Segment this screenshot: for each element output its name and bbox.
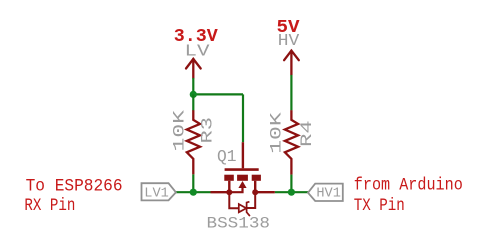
svg-text:To ESP8266: To ESP8266: [26, 176, 123, 196]
body diode anode wire: [229, 192, 239, 208]
transistor Q1 MOSFET: [211, 142, 275, 216]
wire junction to gate horizontal: [193, 93, 243, 95]
svg-text:HV1: HV1: [316, 186, 341, 202]
svg-text:10K: 10K: [170, 109, 188, 151]
source lead: [228, 181, 230, 192]
gate pin: [242, 142, 244, 168]
junction node LV rail: [190, 91, 197, 98]
channel bar drain: [252, 175, 261, 181]
resistor R3: [187, 110, 200, 174]
wire junction to R3: [192, 94, 194, 110]
terminal LV1: [142, 183, 176, 200]
svg-text:from Arduino: from Arduino: [354, 176, 463, 196]
wire LV1 tag to MOSFET source: [176, 191, 211, 193]
wire LV arrow to junction: [192, 78, 194, 94]
svg-text:LV: LV: [185, 41, 210, 60]
svg-text:Q1: Q1: [217, 148, 237, 167]
junction node LV1: [190, 189, 197, 196]
svg-text:RX Pin: RX Pin: [24, 196, 75, 216]
drain lead: [254, 181, 256, 192]
channel bar source: [224, 175, 234, 181]
terminal HV1: [308, 184, 343, 201]
body diode triangle: [239, 204, 247, 212]
wire MOSFET drain to HV1 tag: [275, 191, 308, 193]
drain junction dot: [252, 189, 258, 195]
channel bar body: [237, 175, 248, 181]
body arrow: [238, 181, 246, 188]
gate bar: [225, 168, 259, 171]
resistor R4: [285, 110, 298, 174]
source junction dot: [226, 189, 232, 195]
junction node HV1: [288, 189, 295, 196]
wire R4 to HV1 node: [290, 175, 292, 192]
wire HV arrow to R4: [290, 75, 292, 111]
svg-text:10K: 10K: [268, 112, 286, 154]
svg-text:HV: HV: [278, 31, 300, 50]
wire gate vertical: [242, 94, 244, 142]
source pin: [211, 191, 230, 193]
drain pin: [255, 191, 275, 193]
svg-text:LV1: LV1: [144, 186, 169, 202]
supply arrow HV: [284, 51, 299, 75]
body diode cathode wire: [247, 192, 256, 208]
svg-text:BSS138: BSS138: [207, 215, 271, 233]
body diode cathode bar: [247, 202, 250, 216]
wire R3 to LV1 node: [192, 174, 194, 192]
body lead to source: [229, 188, 242, 192]
svg-text:TX Pin: TX Pin: [354, 196, 405, 216]
svg-text:R4: R4: [298, 120, 316, 147]
svg-text:R3: R3: [198, 117, 216, 144]
supply arrow LV: [186, 59, 201, 78]
